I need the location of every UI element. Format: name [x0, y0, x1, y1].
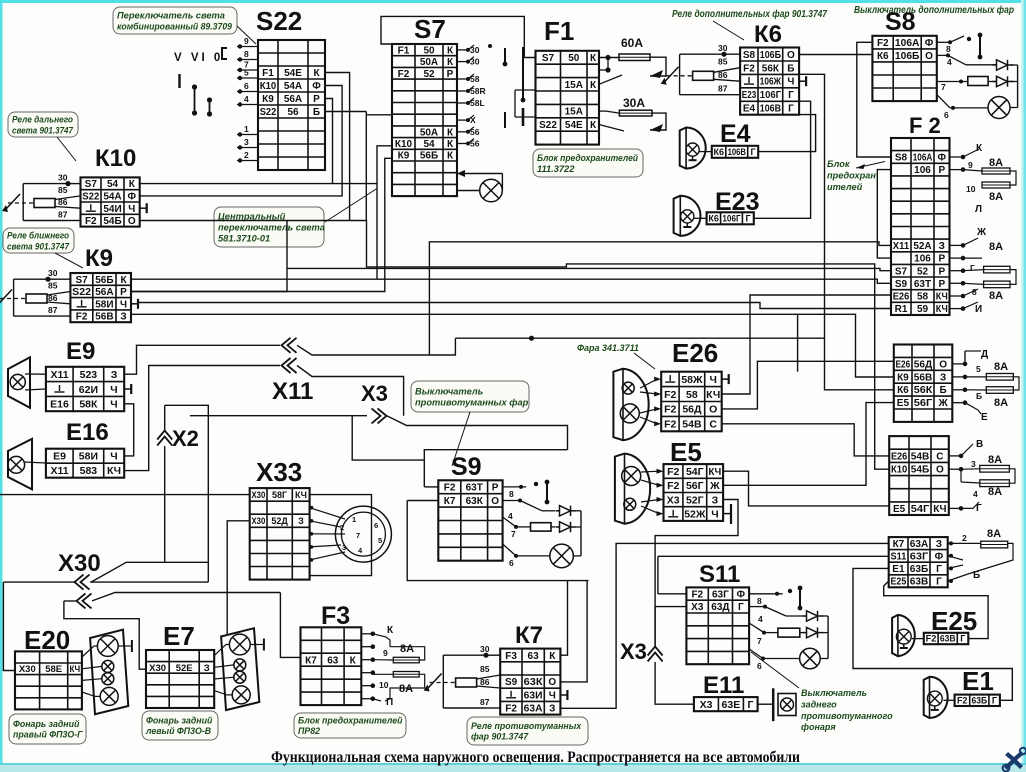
- svg-text:87: 87: [480, 697, 490, 707]
- svg-text:63: 63: [528, 651, 540, 662]
- svg-text:Е11: Е11: [703, 672, 744, 699]
- S9 diode 2: [556, 522, 577, 532]
- wire K7-63А long riser: [560, 543, 888, 708]
- svg-text:56: 56: [470, 139, 480, 149]
- M3 labels: [962, 528, 1001, 581]
- svg-text:КЧ: КЧ: [706, 389, 720, 401]
- lamp E4 connector: [712, 146, 758, 158]
- svg-text:Р: Р: [492, 483, 499, 494]
- svg-text:85: 85: [58, 185, 68, 195]
- svg-text:30А: 30А: [623, 96, 645, 110]
- wire X11 lower continues: [297, 366, 404, 416]
- connector X3 (lower) label: [620, 639, 647, 664]
- svg-text:Е9: Е9: [53, 451, 66, 463]
- wire E25 circuit: [884, 581, 988, 639]
- wire K6 to S8: [799, 54, 872, 56]
- wire K9-56А run: [131, 221, 287, 292]
- svg-text:58Г: 58Г: [272, 490, 287, 500]
- svg-text:К10: К10: [891, 465, 908, 476]
- wire E9-523 to X11 run: [124, 345, 280, 374]
- S22 lever position marks V VI 0: [174, 48, 227, 117]
- K9 ground stub: [131, 299, 138, 309]
- svg-text:S7: S7: [85, 179, 98, 190]
- svg-text:F2: F2: [444, 483, 456, 494]
- svg-text:60А: 60А: [621, 36, 643, 50]
- svg-text:85: 85: [718, 57, 728, 67]
- svg-text:8А: 8А: [989, 157, 1003, 169]
- S7 right pin stubs 30,30,58,58R,58L,X,56,56: [457, 45, 486, 149]
- svg-text:К6: К6: [877, 51, 889, 62]
- svg-text:Ч: Ч: [710, 374, 717, 386]
- svg-text:противотуманных фар: противотуманных фар: [415, 397, 529, 407]
- headlamp E26 label: [672, 338, 718, 368]
- svg-text:54Е: 54Е: [284, 68, 302, 79]
- svg-text:85: 85: [480, 664, 490, 674]
- svg-text:F1: F1: [262, 68, 274, 79]
- svg-text:К: К: [447, 46, 454, 57]
- svg-text:Реле дополнительных фар 901.37: Реле дополнительных фар 901.3747: [672, 9, 827, 20]
- svg-text:левый ФП3О-В: левый ФП3О-В: [145, 726, 212, 736]
- svg-text:Ф: Ф: [737, 589, 746, 600]
- svg-text:2: 2: [244, 150, 249, 160]
- svg-text:4: 4: [508, 511, 513, 521]
- svg-text:S7: S7: [414, 14, 446, 44]
- svg-text:106В: 106В: [760, 104, 781, 115]
- K10 ground stub: [140, 203, 147, 213]
- svg-text:Е4: Е4: [743, 104, 756, 115]
- svg-text:56: 56: [287, 107, 299, 118]
- E7 lamp 2: [234, 659, 246, 671]
- headlamp E5 label: [670, 437, 702, 467]
- svg-text:58Ж: 58Ж: [681, 374, 703, 386]
- svg-text:К7: К7: [893, 539, 905, 550]
- svg-text:S8: S8: [743, 50, 756, 61]
- svg-text:7: 7: [757, 636, 762, 646]
- svg-text:S22: S22: [260, 107, 277, 118]
- svg-text:87: 87: [48, 305, 58, 315]
- wire S22-56А riser: [325, 99, 333, 184]
- S11 diode 1: [803, 611, 824, 621]
- lamp E4: [686, 143, 699, 160]
- lamp E23 connector: [707, 212, 754, 224]
- svg-text:Ч: Ч: [549, 690, 556, 701]
- rear lamp E20 housing: [90, 630, 128, 715]
- svg-text:ителей: ителей: [827, 182, 863, 192]
- M2 right stubs: [949, 454, 964, 511]
- svg-text:30: 30: [470, 45, 480, 55]
- svg-text:Е26: Е26: [893, 292, 910, 303]
- wire K6-56К run: [799, 74, 894, 390]
- svg-text:Е4: Е4: [720, 120, 751, 148]
- svg-text:Ч: Ч: [711, 509, 718, 521]
- lamp E16 table: [46, 449, 124, 478]
- leader line to E26: [634, 353, 655, 369]
- svg-text:Реле дальнего: Реле дальнего: [12, 114, 73, 124]
- svg-text:Ф: Ф: [938, 153, 947, 164]
- switch S22 connector table: [258, 40, 325, 170]
- wire E25 lamp link: [912, 638, 924, 640]
- svg-text:8А: 8А: [988, 454, 1002, 466]
- svg-text:КЧ: КЧ: [295, 490, 307, 500]
- svg-text:6: 6: [244, 81, 249, 91]
- S9 resistor: [531, 523, 552, 531]
- relay K7 table: [500, 649, 560, 715]
- connector X11 label: [272, 378, 313, 405]
- svg-text:S7: S7: [895, 266, 908, 277]
- connector X3 lower chevron: [648, 647, 663, 662]
- svg-text:Ф: Ф: [935, 552, 944, 563]
- E5 ground stub: [723, 504, 731, 524]
- E26 small lamp: [622, 382, 634, 394]
- F3 right stubs: [361, 632, 375, 702]
- svg-text:63В: 63В: [940, 634, 956, 644]
- M1 fuse 8А (1): [986, 374, 1013, 381]
- svg-text:К: К: [447, 151, 454, 162]
- svg-text:F1: F1: [544, 16, 574, 46]
- svg-text:58: 58: [470, 74, 480, 84]
- F3 labels: [379, 625, 414, 708]
- M1 fuse 8А (2): [986, 387, 1013, 394]
- callout: Реле дальнего света 901.3747: [8, 112, 78, 137]
- svg-text:F 2: F 2: [909, 113, 941, 138]
- E11 switch symbol: [773, 688, 796, 721]
- wire X33 to E20 area: [0, 494, 250, 496]
- F1 left stubs: [515, 90, 536, 117]
- svg-text:F2: F2: [664, 389, 676, 401]
- svg-text:63: 63: [327, 655, 339, 666]
- svg-text:К: К: [350, 655, 357, 666]
- M2 fuse 8А (1): [980, 465, 1010, 472]
- F3 fuse wiring: [373, 634, 425, 701]
- wire E5-52Г run: [655, 500, 738, 647]
- svg-text:Е: Е: [981, 412, 988, 423]
- svg-text:63В: 63В: [910, 577, 929, 588]
- lamp housing E4: [680, 128, 706, 169]
- svg-text:О: О: [491, 496, 499, 507]
- E20 internal wires: [82, 640, 132, 696]
- svg-text:56К: 56К: [914, 385, 933, 396]
- svg-text:З: З: [298, 516, 304, 526]
- svg-text:54: 54: [107, 179, 119, 190]
- svg-text:56А: 56А: [284, 94, 302, 105]
- junction dot: [529, 336, 534, 341]
- svg-text:10: 10: [379, 680, 389, 690]
- svg-text:63Т: 63Т: [914, 279, 931, 290]
- svg-text:КЧ: КЧ: [708, 466, 721, 478]
- wire X3 lower vertical: [655, 607, 694, 705]
- svg-text:4: 4: [973, 489, 978, 499]
- svg-text:86: 86: [718, 70, 728, 80]
- svg-text:правый ФП3О-Г: правый ФП3О-Г: [13, 729, 83, 739]
- svg-text:Е26: Е26: [891, 451, 908, 462]
- svg-text:Р: Р: [938, 165, 945, 176]
- svg-text:Х11: Х11: [50, 369, 68, 381]
- wire S22 X branch: [366, 114, 392, 116]
- connector X2 chevron: [157, 431, 172, 446]
- wire E11 right: [758, 703, 774, 705]
- svg-text:К: К: [447, 57, 454, 68]
- svg-text:63Е: 63Е: [722, 699, 741, 711]
- svg-text:54В: 54В: [682, 419, 702, 431]
- callout: Переключатель света комбинированный 89.3709: [113, 7, 237, 34]
- X33 wires to round connector: [310, 506, 345, 562]
- connector block 63 table: [889, 537, 948, 588]
- svg-text:S22: S22: [72, 287, 91, 298]
- svg-text:К6: К6: [897, 385, 909, 396]
- svg-text:63Г: 63Г: [712, 589, 729, 600]
- svg-text:85: 85: [48, 281, 58, 291]
- svg-text:106Г: 106Г: [722, 214, 740, 224]
- F2 fuse 8А (3): [984, 266, 1010, 273]
- svg-text:К7: К7: [444, 496, 456, 507]
- lamp E9 table: [46, 367, 124, 411]
- F2 right stubs: [950, 155, 966, 311]
- svg-text:56Г: 56Г: [686, 480, 704, 492]
- svg-text:54: 54: [423, 139, 435, 150]
- svg-text:противотуманного: противотуманного: [801, 711, 893, 721]
- wire E4 lamp to connector: [699, 151, 712, 153]
- svg-text:S7: S7: [75, 275, 88, 286]
- svg-text:Ж: Ж: [709, 480, 720, 492]
- svg-text:56Г: 56Г: [914, 398, 933, 409]
- svg-text:Блок предохранителей: Блок предохранителей: [298, 715, 403, 725]
- lamp E11 connector: [694, 697, 758, 711]
- fuse 30А: [619, 110, 652, 116]
- svg-text:света 901.3747: света 901.3747: [12, 125, 74, 135]
- svg-text:переключатель света: переключатель света: [218, 222, 325, 232]
- svg-text:63И: 63И: [524, 690, 543, 701]
- svg-text:КЧ: КЧ: [933, 504, 946, 515]
- svg-text:583: 583: [80, 465, 98, 477]
- svg-text:56В: 56В: [914, 372, 933, 383]
- svg-text:54Б: 54Б: [103, 216, 121, 227]
- wire F1 to 30А fuse: [599, 111, 666, 132]
- svg-text:О: О: [548, 677, 556, 688]
- svg-text:63Д: 63Д: [711, 602, 729, 613]
- M2 labels: [971, 439, 1002, 514]
- svg-text:К10: К10: [395, 139, 413, 150]
- svg-text:З: З: [940, 372, 946, 383]
- svg-text:8: 8: [244, 49, 249, 59]
- svg-text:Ф: Ф: [128, 192, 137, 203]
- svg-text:59: 59: [917, 304, 929, 315]
- M2 fuse 8А (2): [980, 480, 1010, 487]
- S11 frame wires: [658, 556, 889, 594]
- svg-text:Л: Л: [975, 204, 982, 215]
- svg-text:86: 86: [58, 197, 68, 207]
- switch S9 table: [438, 480, 502, 560]
- svg-text:S9: S9: [895, 279, 908, 290]
- svg-text:8А: 8А: [399, 683, 413, 695]
- S9 pin 6 wiring: [503, 511, 581, 568]
- svg-text:К: К: [129, 179, 136, 190]
- S9 pin 7 wiring: [503, 517, 555, 539]
- headlamp housing E5: [615, 454, 650, 524]
- svg-text:S7: S7: [542, 53, 555, 64]
- svg-text:86: 86: [480, 677, 490, 687]
- svg-text:52Ж: 52Ж: [684, 509, 706, 521]
- switch S7 connector table: [392, 44, 457, 196]
- svg-text:58: 58: [917, 292, 929, 303]
- svg-text:87: 87: [58, 210, 68, 220]
- svg-text:8А: 8А: [994, 397, 1008, 409]
- svg-text:6: 6: [509, 558, 514, 568]
- svg-text:F3: F3: [505, 651, 517, 662]
- svg-text:Х30: Х30: [252, 516, 266, 526]
- svg-text:Е26: Е26: [672, 338, 718, 368]
- green note: Фара 341.3711: [577, 343, 639, 353]
- corner glyph: [1003, 748, 1026, 772]
- svg-text:З: З: [204, 663, 210, 674]
- svg-text:52Д: 52Д: [271, 516, 288, 526]
- svg-text:Ч: Ч: [110, 399, 117, 411]
- wire K9-56В long run: [131, 314, 894, 377]
- connector X30 chevron upper: [75, 575, 90, 590]
- svg-text:Ч: Ч: [787, 77, 794, 88]
- svg-text:К: К: [590, 120, 597, 131]
- svg-text:F2: F2: [743, 63, 755, 74]
- svg-text:КЧ: КЧ: [936, 292, 948, 303]
- wire E1 circuit: [853, 568, 1012, 700]
- svg-text:S11: S11: [891, 552, 907, 563]
- svg-text:F2: F2: [664, 404, 676, 416]
- svg-text:Р: Р: [938, 254, 945, 265]
- svg-text:63К: 63К: [524, 677, 544, 688]
- svg-text:К: К: [590, 80, 597, 91]
- svg-text:Б: Б: [940, 385, 947, 396]
- svg-text:52А: 52А: [913, 241, 931, 252]
- svg-text:Выключатель: Выключатель: [415, 386, 483, 396]
- svg-text:Р: Р: [120, 287, 127, 298]
- S22 pin stubs 9,8,7,5,6,4,1,3,2: [237, 36, 258, 163]
- leader line to S9: [452, 412, 470, 466]
- svg-text:Х30: Х30: [149, 663, 166, 674]
- E26 lamp arrows: [640, 377, 661, 427]
- relay K7 label: [515, 622, 543, 649]
- svg-text:Г: Г: [746, 214, 751, 224]
- svg-text:58Е: 58Е: [45, 664, 62, 675]
- wire X30 lower: [64, 593, 281, 670]
- svg-text:К6: К6: [754, 21, 782, 48]
- svg-text:54Е: 54Е: [565, 120, 583, 131]
- svg-text:63Т: 63Т: [466, 483, 483, 494]
- rear lamp E20 table: [15, 651, 82, 709]
- svg-text:фонаря: фонаря: [801, 722, 836, 732]
- svg-text:5: 5: [244, 68, 249, 78]
- F2 fuse wiring right: [963, 149, 1016, 309]
- connector X11 chevron lower: [282, 358, 297, 373]
- svg-text:6: 6: [944, 110, 949, 120]
- svg-text:К7: К7: [305, 655, 317, 666]
- svg-text:Е9: Е9: [66, 338, 95, 365]
- S8 lever marks: [967, 33, 983, 60]
- svg-text:63Б: 63Б: [910, 564, 929, 575]
- svg-text:1: 1: [244, 124, 249, 134]
- svg-text:Фонарь задний: Фонарь задний: [13, 719, 80, 729]
- svg-text:63К: 63К: [466, 496, 484, 507]
- S9 pin 4 and diode: [503, 499, 555, 522]
- connector X3 chevron: [372, 408, 387, 423]
- wire 106 net link: [877, 170, 891, 259]
- wire riser 455: [429, 338, 455, 355]
- svg-text:Х30: Х30: [58, 550, 101, 577]
- callout: Выключатель противотуманных фар: [411, 381, 529, 412]
- svg-text:10: 10: [966, 184, 976, 194]
- svg-text:Х3: Х3: [700, 699, 713, 711]
- wire E23 lamp to connector: [694, 217, 707, 219]
- relay K7 coil and contact: [424, 644, 501, 708]
- headlamp E5 table: [664, 464, 724, 521]
- switch S11 table: [686, 587, 749, 664]
- headlamp housing E26: [613, 369, 648, 441]
- svg-text:Р: Р: [938, 266, 945, 277]
- svg-text:58К: 58К: [79, 399, 98, 411]
- svg-text:Х3: Х3: [620, 639, 647, 664]
- svg-text:8А: 8А: [400, 643, 414, 655]
- svg-text:8: 8: [946, 44, 951, 54]
- connector X30 label: [58, 550, 101, 577]
- svg-text:6: 6: [757, 661, 762, 671]
- svg-text:30: 30: [480, 644, 490, 654]
- svg-text:О: О: [128, 216, 136, 227]
- svg-text:И: И: [975, 304, 982, 315]
- svg-text:С: С: [709, 419, 717, 431]
- svg-text:Х3: Х3: [361, 381, 388, 406]
- svg-text:О: О: [925, 51, 933, 62]
- M3 fuse wiring: [948, 543, 1013, 581]
- lamp housing E1: [924, 677, 948, 718]
- svg-text:Г: Г: [960, 634, 965, 644]
- svg-text:Г: Г: [788, 104, 794, 115]
- svg-text:Г: Г: [750, 147, 755, 157]
- svg-text:Г: Г: [970, 263, 975, 273]
- wire E26-56Д run: [722, 361, 894, 409]
- rear lamp E7 housing: [221, 628, 259, 710]
- caption: [271, 749, 800, 766]
- svg-text:52Г: 52Г: [686, 494, 704, 506]
- svg-text:Х11: Х11: [50, 465, 68, 477]
- relay K6 table: [740, 48, 799, 115]
- svg-text:54А: 54А: [103, 192, 121, 203]
- svg-text:15А: 15А: [565, 107, 583, 118]
- rear lamp E7 label: [163, 621, 195, 651]
- wire X11-52А long run: [429, 242, 891, 355]
- S11 pin 4 and diode: [749, 605, 804, 624]
- svg-text:F2: F2: [398, 69, 410, 80]
- fuse block F2 label: [909, 113, 941, 138]
- E26 big lamp: [620, 404, 639, 423]
- green note: Блок предохранителей (right): [827, 159, 876, 192]
- E7 lamp 4: [232, 686, 250, 704]
- lamp E1: [927, 691, 942, 710]
- svg-text:50: 50: [423, 46, 435, 57]
- relay K10 label: [95, 145, 136, 172]
- svg-text:50А: 50А: [420, 127, 438, 138]
- svg-text:106Г: 106Г: [760, 90, 782, 101]
- callout: Блок предохранителей 111.3722: [533, 149, 643, 177]
- svg-text:F2: F2: [76, 312, 88, 323]
- M3 fuse 8А: [981, 541, 1008, 548]
- connector X11 chevron upper: [282, 338, 297, 353]
- wire branch 797 down: [797, 314, 799, 371]
- relay K6 label: [754, 21, 782, 48]
- S11 lever marks: [788, 586, 803, 611]
- svg-text:К7: К7: [515, 622, 543, 649]
- svg-text:Выключатель: Выключатель: [801, 688, 867, 698]
- wire E5-56Г run: [723, 403, 894, 486]
- S11 pin 7 wiring: [749, 623, 804, 646]
- svg-text:S8: S8: [895, 153, 908, 164]
